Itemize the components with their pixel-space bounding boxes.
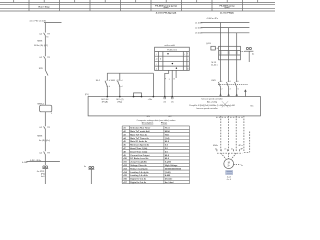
caption above settings table [137, 119, 176, 125]
svg-text:d: d [109, 86, 110, 88]
svg-text:TR: TR [47, 57, 50, 59]
svg-text:TR: TR [47, 33, 50, 35]
terminal ticks above motor bracket [216, 149, 218, 151]
right circuit labels [195, 18, 255, 167]
motor M1 [224, 159, 234, 169]
wire: table drop G stub [175, 70, 177, 78]
labels under bus / in box [85, 94, 254, 118]
svg-text:Jump freq (4-40): Jump freq (4-40) [130, 161, 146, 164]
wire: phase 1 drop [220, 23, 222, 47]
svg-text:PumpFlo N [2x6](2x6) 4444Hz (1: PumpFlo N [2x6](2x6) 4444Hz (1+1M)+[2xpk… [189, 105, 235, 107]
wire: table drop F bend [165, 70, 169, 96]
svg-text:4w / 4wd: 4w / 4wd [165, 181, 174, 184]
svg-text:PS1 Cm 4011: PS1 Cm 4011 [35, 21, 47, 23]
svg-text:Decel Time 1 (4x): Decel Time 1 (4x) [130, 150, 147, 153]
left circuit labels [22, 21, 53, 178]
wire: phases to contactor [220, 60, 222, 82]
svg-text:2: 2 [222, 88, 223, 90]
svg-text:(1-40): (1-40) [165, 171, 171, 174]
switch S4M [119, 73, 121, 80]
motor starter MMS-1 box [40, 105, 52, 112]
svg-text:Relay 1 Config 4x: Relay 1 Config 4x [130, 167, 148, 170]
contact K2 [44, 56, 46, 59]
svg-text:Digital In Out 4x: Digital In Out 4x [130, 178, 147, 181]
svg-text:S4M: S4M [111, 80, 115, 82]
bump rect on bus [134, 93, 142, 97]
connector circles bottom-left [43, 166, 45, 168]
svg-text:(7): (7) [171, 101, 174, 103]
svg-text:Digital In Out 4x: Digital In Out 4x [130, 181, 147, 184]
svg-text:MMS: MMS [37, 40, 42, 42]
motor ground block [226, 171, 233, 181]
svg-text:furnace speed controller: furnace speed controller [201, 98, 223, 101]
svg-text:TR: TR [47, 127, 50, 129]
contact K1 top [44, 33, 46, 36]
svg-text:4: 4 [230, 88, 231, 90]
svg-text:Main TxT Times 4x: Main TxT Times 4x [130, 137, 149, 140]
wire: drop at x=153 [152, 73, 154, 96]
svg-text:Componts settings data (mm tab: Componts settings data (mm table) ambm [137, 119, 176, 122]
motor cross symbol [222, 101, 228, 107]
svg-text:Phoys: Phoys [161, 123, 168, 125]
svg-text:-4N: -4N [147, 116, 151, 118]
breaker Q4B box [219, 46, 241, 60]
svg-text:SPD: SPD [39, 68, 44, 70]
svg-text:MMS: MMS [37, 135, 42, 137]
svg-text:(7): (7) [164, 101, 167, 103]
wire: L3 feed [201, 32, 250, 34]
svg-text:(Pby): (Pby) [117, 101, 122, 103]
switch SPD [45, 70, 48, 76]
VFD big box [88, 97, 260, 116]
PCM settings mini table [155, 47, 190, 70]
svg-text:Main TxT Text 4x: Main TxT Text 4x [130, 133, 147, 136]
trip arrow [244, 89, 246, 91]
switch S4-2 [106, 73, 108, 80]
svg-text:(pm): (pm) [225, 7, 230, 9]
svg-text:T1=1: T1=1 [165, 128, 171, 130]
title block top table [0, 0, 275, 11]
svg-text:art-4m rat4d: art-4m rat4d [164, 44, 174, 47]
svg-text:Accel Time 1 (4x): Accel Time 1 (4x) [130, 147, 147, 150]
settings table [122, 126, 189, 184]
svg-text:Current Lim Output: Current Lim Output [130, 154, 149, 157]
wire: trip vertical [248, 51, 250, 62]
wire: control top rail [107, 72, 153, 74]
svg-text:4x: 4x [84, 166, 86, 168]
contact K4 [44, 152, 46, 155]
svg-text:4 4M - 4D4x: 4 4M - 4D4x [30, 160, 42, 162]
svg-text:00000000000000: 00000000000000 [165, 168, 182, 170]
svg-text:(C-OO-PW)4x: (C-OO-PW)4x [220, 12, 235, 15]
svg-text:4x (4k) [4.x]: 4x (4k) [4.x] [39, 140, 50, 142]
svg-text:Minimum Speed 4x: Minimum Speed 4x [130, 144, 150, 147]
svg-text:PCMa Unit: PCMa Unit [167, 49, 177, 52]
mini table dots [167, 53, 177, 69]
svg-text:6: 6 [238, 88, 239, 90]
svg-text:Q4 B: Q4 B [206, 43, 211, 45]
wire: phase 3 drop [236, 33, 238, 47]
svg-text:Selection Run Timer: Selection Run Timer [130, 127, 150, 130]
svg-text:(pm): (pm) [164, 7, 169, 9]
svg-text:0-q/50: 0-q/50 [165, 162, 172, 164]
svg-text:(PL): (PL) [85, 94, 89, 96]
svg-text:(PhyB): (PhyB) [102, 101, 108, 103]
svg-text:furnace speed controller: furnace speed controller [196, 107, 218, 110]
wire: motor terminal bracket [217, 152, 242, 154]
svg-text:d: d [109, 80, 110, 82]
trip indicator [246, 47, 248, 49]
svg-text:4-10d: 4-10d [22, 162, 28, 164]
terminal squares on bus [164, 97, 166, 99]
wire: table drop B [171, 70, 173, 96]
svg-text:3: 3 [230, 81, 231, 83]
terminal triangles on box top [220, 94, 238, 96]
breaker elements [220, 51, 237, 54]
svg-text:11-4k x: 11-4k x [211, 64, 219, 66]
wire: top feed horizontal [44, 22, 62, 24]
wire: motor leads dashed [220, 116, 222, 152]
svg-text:Description: Description [142, 122, 154, 125]
svg-text:Main TxT mode 4x4: Main TxT mode 4x4 [130, 130, 150, 133]
svg-text:4.1.5: 4.1.5 [30, 21, 34, 23]
svg-text:DC Brake Level 4x: DC Brake Level 4x [130, 157, 149, 160]
svg-text:+24v: +24v [148, 99, 152, 101]
bus junction dots [107, 96, 174, 98]
svg-text:4x: 4x [241, 165, 243, 167]
svg-text:(7): (7) [117, 80, 120, 82]
svg-text:MMS-1: MMS-1 [38, 104, 46, 106]
svg-text:Voltage Class 4x: Voltage Class 4x [130, 164, 147, 167]
svg-text:Landing 1-4 x4 4x: Landing 1-4 x4 4x [130, 174, 148, 177]
svg-text:Disable: Disable [165, 179, 173, 181]
svg-text:Landing 1-4 cfg 4x: Landing 1-4 cfg 4x [130, 171, 149, 174]
svg-text:Abc+2x4kg: Abc+2x4kg [207, 101, 217, 104]
svg-text:5: 5 [238, 81, 239, 83]
wire: L1 feed [201, 22, 250, 24]
svg-text:4-COO-PW-4(grey)4: 4-COO-PW-4(grey)4 [156, 12, 177, 15]
wire: left vertical main [44, 23, 46, 33]
svg-text:/M 4x (4k) [4.1]: /M 4x (4k) [4.1] [34, 45, 48, 47]
title block texts [39, 5, 236, 15]
wire: L2 feed [201, 27, 250, 29]
wire: phase 2 drop [228, 28, 230, 47]
contactor KM1 contacts [218, 82, 220, 87]
svg-text:4 40Cm 4Px: 4 40Cm 4Px [207, 18, 219, 20]
breaker operator square [211, 46, 215, 50]
wire: phases to box [220, 87, 222, 96]
svg-text:d: d [121, 80, 122, 82]
svg-text:High Voltage: High Voltage [165, 164, 178, 167]
svg-text:(1-4): (1-4) [165, 137, 170, 140]
svg-text:4-400: 4-400 [165, 174, 171, 177]
wire: brake dashed vertical right [249, 132, 251, 153]
svg-text:d: d [121, 86, 122, 88]
bottom-left connector 2 [88, 166, 94, 184]
contact K3 [44, 126, 46, 129]
svg-text:Run / Stop: Run / Stop [39, 5, 51, 8]
wire: 4-10 horizontal [26, 161, 60, 163]
svg-text:L3 4Cm: L3 4Cm [195, 33, 203, 35]
svg-text:1: 1 [222, 81, 223, 83]
svg-text:L2 4Cm: L2 4Cm [195, 28, 203, 30]
svg-text:L1 4Cm: L1 4Cm [195, 22, 203, 24]
wire: motor aux dashed right [234, 164, 241, 166]
svg-text:TR: TR [47, 152, 50, 154]
svg-text:Main D1 limits 4x: Main D1 limits 4x [130, 140, 148, 143]
